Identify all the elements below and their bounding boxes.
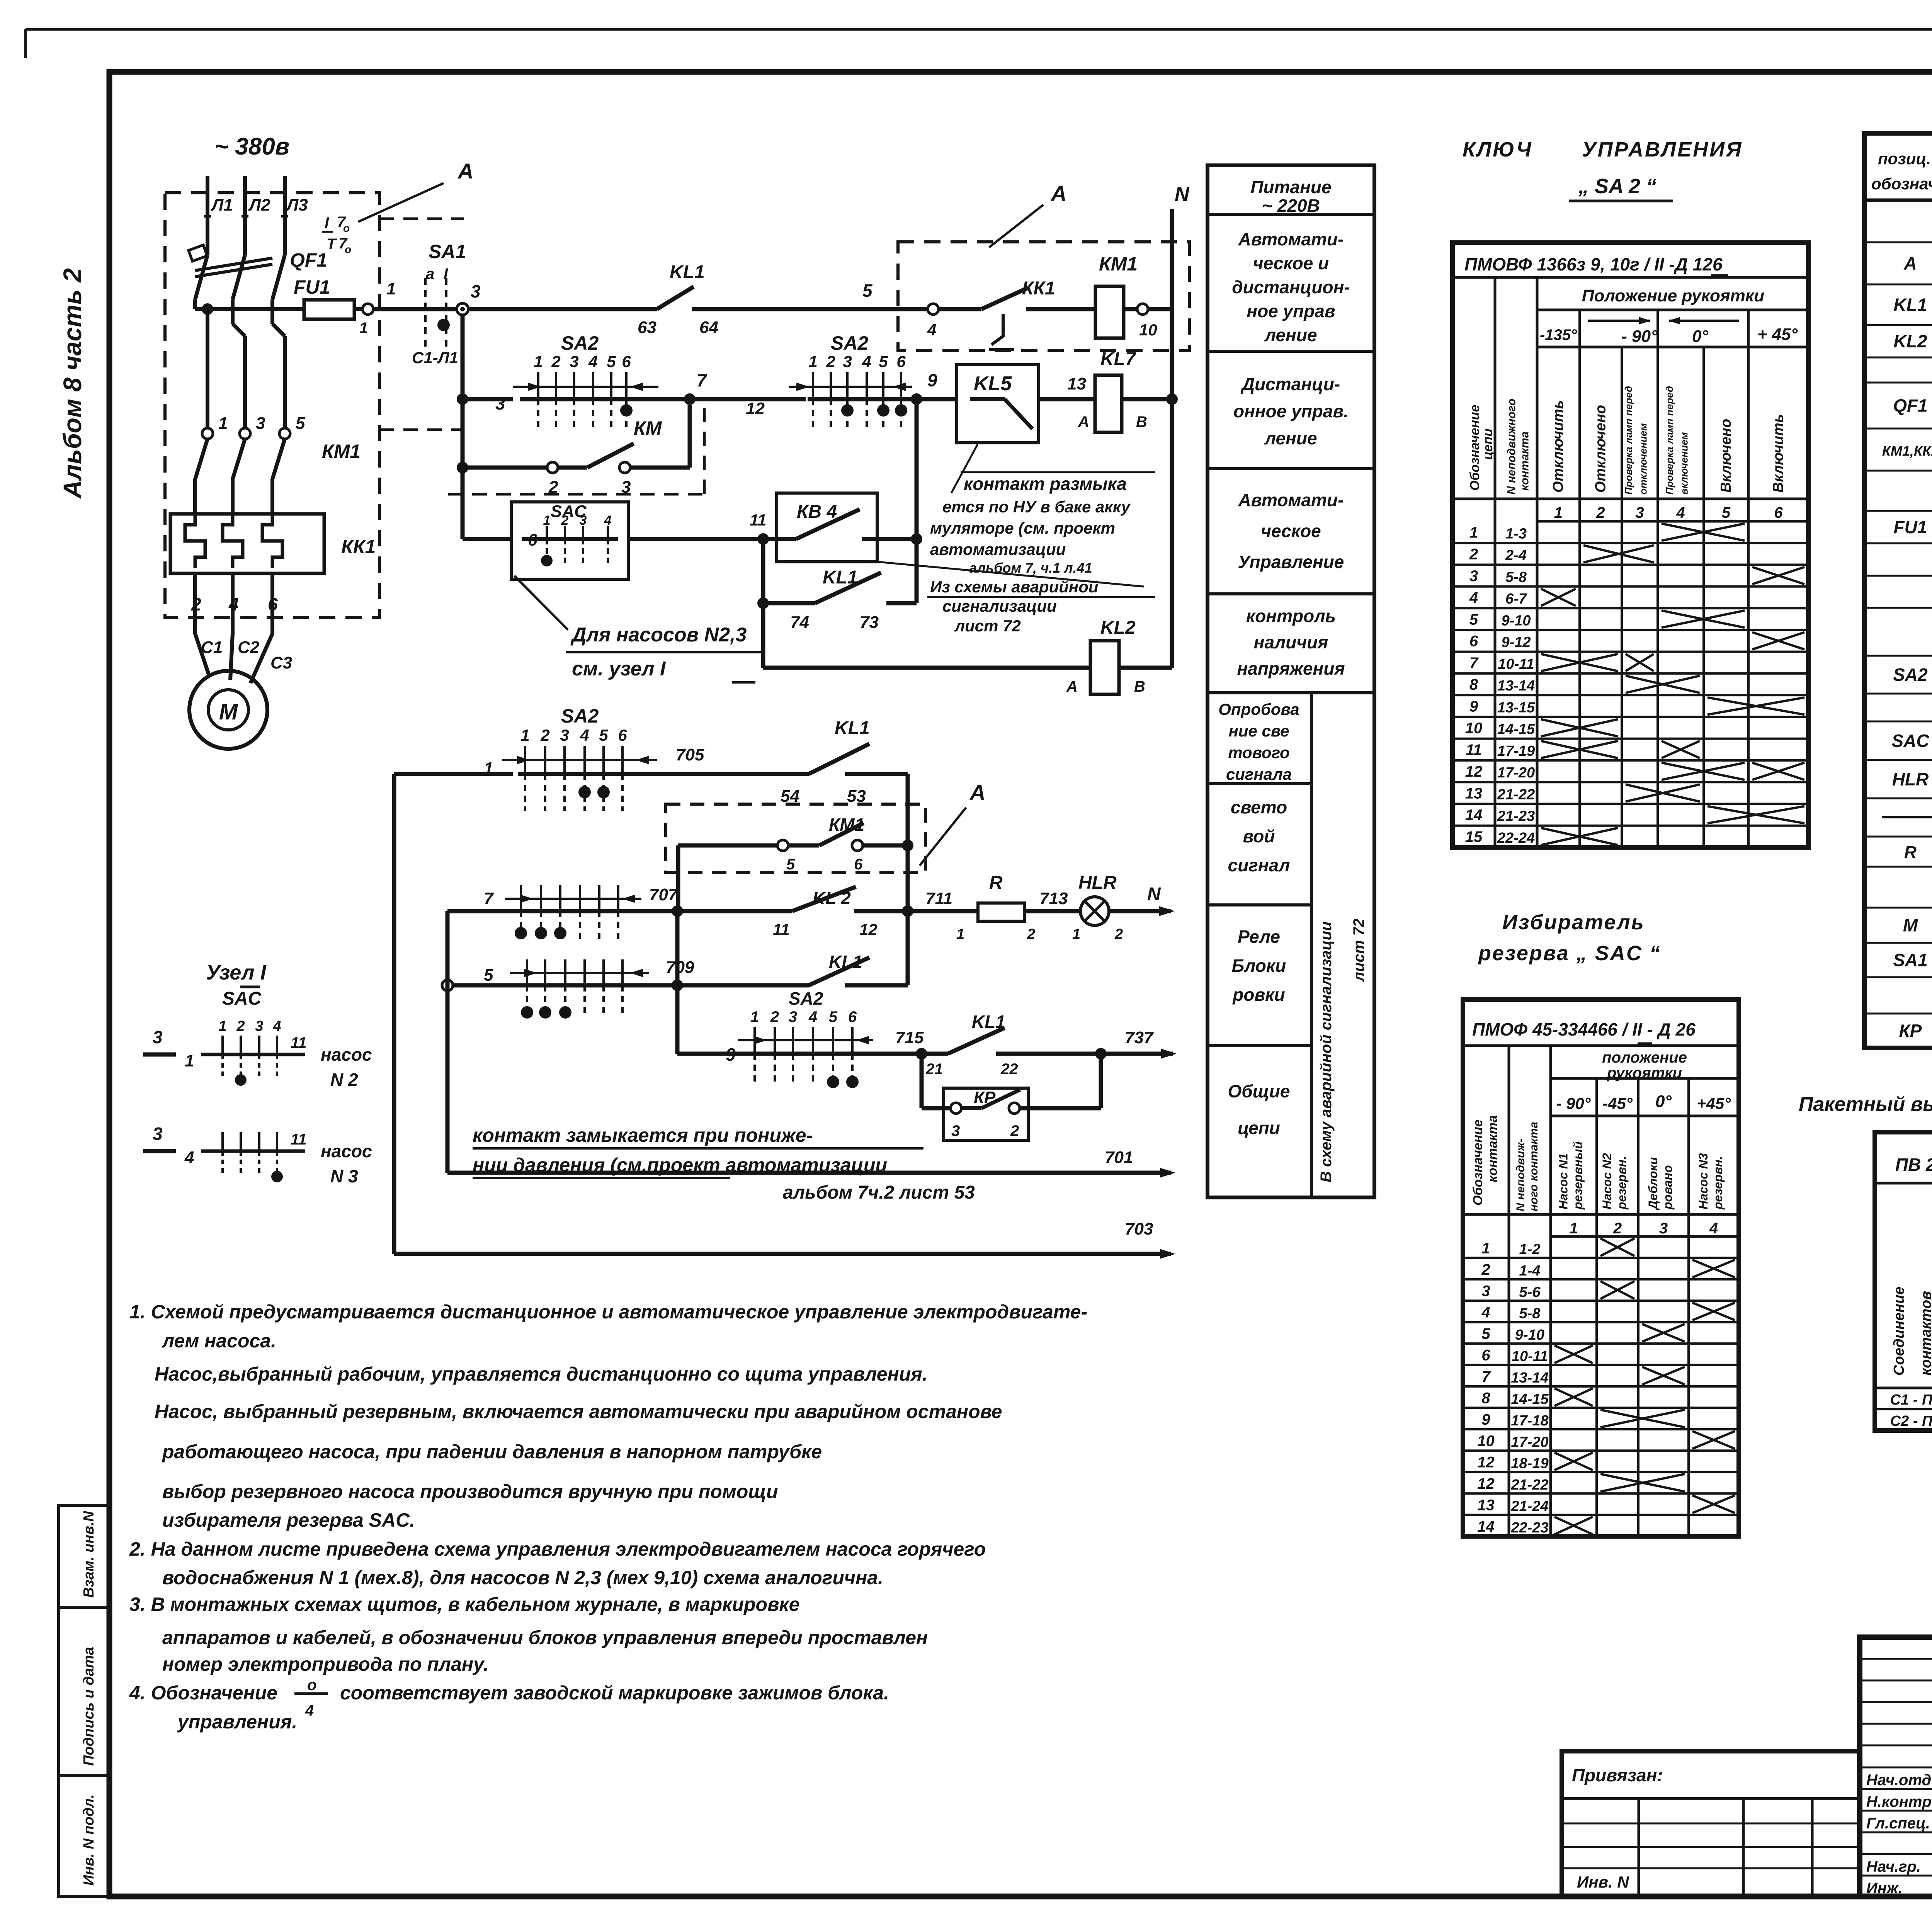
svg-text:9: 9 xyxy=(1481,1411,1490,1428)
node diagram насос N3 xyxy=(143,1149,176,1153)
svg-text:6: 6 xyxy=(854,856,863,873)
corner 705 to km1 aux xyxy=(906,774,910,985)
svg-text:Автомати-: Автомати- xyxy=(1238,490,1344,510)
svg-text:22-24: 22-24 xyxy=(1497,830,1535,846)
svg-text:3: 3 xyxy=(1635,504,1644,521)
svg-text:8: 8 xyxy=(1481,1389,1490,1406)
svg-text:N: N xyxy=(1147,884,1161,905)
svg-text:713: 713 xyxy=(1039,889,1068,908)
svg-text:КР: КР xyxy=(1899,1021,1922,1041)
svg-text:Пакетный выключатель: Пакетный выключатель xyxy=(1799,1093,1932,1116)
svg-text:4: 4 xyxy=(1481,1304,1490,1321)
svg-text:3: 3 xyxy=(580,513,587,528)
svg-text:см. узел I: см. узел I xyxy=(572,658,666,680)
svg-text:онное управ.: онное управ. xyxy=(1233,401,1349,421)
svg-text:12: 12 xyxy=(859,920,878,939)
dashed block boundary around SA1 xyxy=(379,218,464,220)
svg-text:Привязан:: Привязан: xyxy=(1572,1765,1663,1785)
svg-text:- 90°: - 90° xyxy=(1621,327,1658,346)
svg-text:1-4: 1-4 xyxy=(1519,1263,1541,1279)
svg-text:T: T xyxy=(327,236,337,253)
svg-text:1: 1 xyxy=(1469,524,1478,541)
svg-text:Обозначение: Обозначение xyxy=(1468,405,1482,491)
pressure relay KP branch xyxy=(920,1054,924,1108)
table SA1 frame xyxy=(1875,1132,1932,1430)
relay coil KL7 xyxy=(1095,375,1122,432)
svg-text:3: 3 xyxy=(843,352,852,371)
svg-text:ПМОФ 45-334466 / II - Д 26: ПМОФ 45-334466 / II - Д 26 xyxy=(1472,1019,1696,1039)
svg-text:управления.: управления. xyxy=(177,1711,297,1733)
svg-text:насос: насос xyxy=(321,1141,372,1161)
switch SA1 position marks xyxy=(424,278,427,348)
svg-text:контакт размыка: контакт размыка xyxy=(964,474,1127,494)
svg-text:ние све: ние све xyxy=(1228,722,1289,740)
svg-text:А: А xyxy=(1066,678,1078,695)
svg-text:9: 9 xyxy=(927,370,937,390)
contactor coil KM1 xyxy=(1095,286,1124,338)
signal lamp HLR xyxy=(1080,897,1109,925)
table SAC angles row xyxy=(1551,1115,1739,1117)
wire KL7 to N xyxy=(1122,397,1172,401)
svg-text:715: 715 xyxy=(895,1028,924,1047)
svg-text:1: 1 xyxy=(1481,1240,1490,1257)
svg-text:1: 1 xyxy=(1072,926,1080,942)
rung 701 wire xyxy=(446,911,450,1173)
svg-text:SA1: SA1 xyxy=(429,241,466,262)
svg-text:10: 10 xyxy=(1465,720,1483,737)
svg-text:4: 4 xyxy=(1709,1220,1718,1237)
table SAC data rows xyxy=(1463,1257,1739,1259)
svg-text:муляторе (см. проект: муляторе (см. проект xyxy=(930,519,1115,537)
svg-text:ПМОВФ 1366з 9, 10г / II -Д 126: ПМОВФ 1366з 9, 10г / II -Д 126 xyxy=(1464,254,1723,274)
svg-text:5: 5 xyxy=(599,726,608,744)
svg-text:SAC: SAC xyxy=(222,988,262,1009)
svg-text:-45°: -45° xyxy=(1602,1094,1633,1112)
svg-text:6: 6 xyxy=(1481,1347,1490,1364)
svg-text:13: 13 xyxy=(1465,785,1483,802)
svg-text:~ 380в: ~ 380в xyxy=(214,133,289,160)
svg-text:6: 6 xyxy=(622,352,631,371)
svg-text:КМ1: КМ1 xyxy=(1099,253,1138,275)
wires to motor xyxy=(193,573,197,634)
svg-text:лист 72: лист 72 xyxy=(954,617,1021,635)
svg-text:74: 74 xyxy=(790,613,809,632)
svg-text:R: R xyxy=(1904,843,1917,862)
svg-text:1: 1 xyxy=(750,1009,759,1026)
svg-text:Управление: Управление xyxy=(1238,552,1344,572)
svg-text:Проверка ламп перед: Проверка ламп перед xyxy=(1664,386,1675,495)
svg-text:Общие: Общие xyxy=(1228,1081,1290,1101)
svg-text:4: 4 xyxy=(862,352,871,371)
svg-text:Дистанци-: Дистанци- xyxy=(1240,374,1340,394)
svg-text:Включено: Включено xyxy=(1718,419,1734,493)
svg-text:1: 1 xyxy=(520,726,529,744)
svg-text:12: 12 xyxy=(1477,1475,1495,1492)
svg-text:KL7: KL7 xyxy=(1100,349,1136,369)
svg-text:N неподвиж-: N неподвиж- xyxy=(1514,1138,1527,1211)
junction KB4 right xyxy=(911,533,922,545)
svg-text:Положение рукоятки: Положение рукоятки xyxy=(1582,286,1764,305)
svg-text:сигнал: сигнал xyxy=(1228,855,1290,875)
junction node 11 xyxy=(757,533,769,545)
thermal contact KK1 on rung 1 xyxy=(928,304,939,315)
junction node 9 xyxy=(911,393,922,405)
title block left grid xyxy=(1860,1658,1932,1660)
svg-text:Блоки: Блоки xyxy=(1232,956,1286,976)
relay contact KL1 on rung 1 xyxy=(657,287,694,309)
svg-text:Взам. инв.N: Взам. инв.N xyxy=(81,1510,97,1598)
svg-text:Инж.: Инж. xyxy=(1866,1880,1903,1897)
svg-text:А: А xyxy=(457,159,473,183)
svg-text:контроль: контроль xyxy=(1246,606,1336,626)
attachment block Привязан xyxy=(1562,1751,1860,1896)
svg-text:64: 64 xyxy=(699,318,718,337)
svg-text:3: 3 xyxy=(495,393,505,413)
svg-text:наличия: наличия xyxy=(1254,632,1328,652)
svg-text:Опробова: Опробова xyxy=(1218,700,1299,718)
wire phase B down xyxy=(231,311,235,324)
relay contact KL2 on rung 707 xyxy=(792,887,856,911)
svg-text:резерва „ SAC “: резерва „ SAC “ xyxy=(1478,942,1661,965)
svg-text:6: 6 xyxy=(896,352,906,371)
wire 711 to resistor xyxy=(908,909,978,913)
svg-text:Насос N3: Насос N3 xyxy=(1696,1153,1710,1209)
switch SA2 group 5 xyxy=(510,972,649,974)
table SA1 header xyxy=(1875,1182,1932,1185)
rung KL2 - voltage monitor xyxy=(763,666,1090,670)
note leader для насосов xyxy=(514,576,568,630)
svg-text:2: 2 xyxy=(770,1009,779,1026)
svg-text:2: 2 xyxy=(1010,1122,1019,1139)
svg-text:Инв. N подл.: Инв. N подл. xyxy=(81,1794,97,1886)
svg-text:13: 13 xyxy=(1477,1497,1495,1514)
svg-text:4: 4 xyxy=(305,1702,314,1719)
svg-text:лем насоса.: лем насоса. xyxy=(162,1330,276,1352)
svg-text:4: 4 xyxy=(184,1148,194,1167)
svg-text:8: 8 xyxy=(1469,676,1478,693)
svg-text:2: 2 xyxy=(826,352,835,371)
svg-text:контактов: контактов xyxy=(1918,1291,1932,1376)
table SA1 data rows xyxy=(1875,1408,1932,1410)
svg-text:707: 707 xyxy=(649,885,679,904)
vertical tie aux contact left xyxy=(676,845,680,911)
svg-text:Отключить: Отключить xyxy=(1550,400,1566,493)
svg-text:М: М xyxy=(1903,915,1918,935)
rung 703 wire xyxy=(394,1252,1171,1256)
pressure switch contact KB4 in box xyxy=(777,493,877,562)
vertical tie 1753 down xyxy=(675,911,680,1054)
svg-text:С3: С3 xyxy=(270,653,292,672)
svg-text:2: 2 xyxy=(1613,1220,1622,1237)
svg-text:I: I xyxy=(325,214,329,231)
svg-text:5: 5 xyxy=(484,966,493,985)
svg-text:KL1: KL1 xyxy=(1894,295,1927,315)
svg-text:11: 11 xyxy=(291,1131,307,1148)
svg-text:SA2: SA2 xyxy=(789,988,823,1009)
svg-text:А: А xyxy=(1078,413,1089,430)
svg-text:21-24: 21-24 xyxy=(1510,1498,1548,1515)
svg-text:С1: С1 xyxy=(201,638,223,657)
svg-text:703: 703 xyxy=(1125,1219,1153,1238)
svg-text:4: 4 xyxy=(588,352,597,371)
svg-text:0°: 0° xyxy=(1692,327,1708,346)
svg-text:КМ1: КМ1 xyxy=(829,815,864,835)
svg-text:напряжения: напряжения xyxy=(1237,658,1345,679)
svg-text:3: 3 xyxy=(153,1124,163,1144)
svg-text:737: 737 xyxy=(1125,1028,1154,1047)
svg-text:1-3: 1-3 xyxy=(1505,526,1527,542)
svg-text:1: 1 xyxy=(543,513,551,528)
svg-text:включением: включением xyxy=(1679,432,1690,495)
rung 1 wire to KL1 contact xyxy=(468,307,657,311)
svg-text:„ SA 2 “: „ SA 2 “ xyxy=(1578,175,1656,198)
svg-text:Насос,выбранный рабочим, упра: Насос,выбранный рабочим, управляется дис… xyxy=(155,1363,928,1385)
svg-text:4: 4 xyxy=(604,513,612,528)
svg-text:ного контакта: ного контакта xyxy=(1527,1122,1540,1211)
svg-text:4: 4 xyxy=(580,726,589,744)
phase line Л2 xyxy=(243,176,247,255)
svg-text:положение: положение xyxy=(1602,1049,1687,1066)
svg-text:ровки: ровки xyxy=(1232,985,1285,1005)
svg-text:Питание: Питание xyxy=(1250,177,1331,197)
svg-text:KL1: KL1 xyxy=(823,567,858,588)
svg-text:5-8: 5-8 xyxy=(1519,1306,1541,1322)
svg-text:6: 6 xyxy=(618,726,627,744)
relay coil KL2 xyxy=(1090,641,1119,694)
svg-text:аппаратов и кабелей, в об: аппаратов и кабелей, в обозначении блоко… xyxy=(162,1627,928,1648)
svg-text:+45°: +45° xyxy=(1697,1094,1731,1112)
svg-text:2: 2 xyxy=(1114,926,1123,942)
contactor KM1 main contacts xyxy=(202,428,213,439)
svg-text:альбом 7, ч.1 л.41: альбом 7, ч.1 л.41 xyxy=(969,560,1092,576)
svg-text:Насос N2: Насос N2 xyxy=(1600,1153,1614,1209)
svg-text:тового: тового xyxy=(1228,743,1289,762)
svg-text:1: 1 xyxy=(218,414,228,433)
svg-text:ческое: ческое xyxy=(1261,521,1321,541)
rung SAC - selector xyxy=(463,537,511,541)
dashed boundary below KM rung xyxy=(448,493,704,496)
rung KM - auto control aux contact xyxy=(457,462,468,473)
wire resistor to lamp xyxy=(1024,909,1081,913)
svg-text:цепи: цепи xyxy=(1238,1118,1280,1138)
svg-text:15: 15 xyxy=(1465,828,1483,845)
svg-text:рукоятки: рукоятки xyxy=(1607,1065,1682,1082)
svg-text:10: 10 xyxy=(1139,321,1157,339)
svg-text:o: o xyxy=(343,222,350,234)
svg-text:3: 3 xyxy=(570,352,578,371)
svg-text:автоматизации: автоматизации xyxy=(930,540,1066,558)
switch SA2 group 3 xyxy=(502,759,657,761)
svg-text:ление: ление xyxy=(1264,325,1317,345)
svg-text:KL1: KL1 xyxy=(829,952,862,972)
relay contact KL1 on rung 705 xyxy=(809,744,869,774)
svg-text:Л2: Л2 xyxy=(248,196,270,214)
svg-text:5: 5 xyxy=(296,414,305,433)
svg-text:5-6: 5-6 xyxy=(1519,1284,1541,1300)
svg-text:17-20: 17-20 xyxy=(1511,1434,1548,1450)
table key SA2 frame xyxy=(1452,243,1808,847)
svg-text:17-19: 17-19 xyxy=(1497,743,1535,759)
svg-text:5: 5 xyxy=(786,856,795,873)
svg-text:21-22: 21-22 xyxy=(1510,1477,1548,1493)
svg-text:22-23: 22-23 xyxy=(1510,1520,1548,1536)
svg-text:KL1: KL1 xyxy=(670,262,705,282)
svg-text:М: М xyxy=(219,699,238,724)
relay contact KL1 on rung 709 xyxy=(809,957,869,985)
svg-text:21-22: 21-22 xyxy=(1497,786,1535,803)
svg-text:13-14: 13-14 xyxy=(1497,678,1535,694)
left margin stamp boxes xyxy=(59,1505,109,1607)
svg-text:9-10: 9-10 xyxy=(1515,1327,1544,1343)
svg-text:12: 12 xyxy=(1465,763,1483,780)
aux contact KM1 (53-54) xyxy=(678,844,777,848)
svg-text:1. Схемой предусматривается: 1. Схемой предусматривается дистанционно… xyxy=(129,1301,1087,1323)
svg-text:КЛЮЧ: КЛЮЧ xyxy=(1463,138,1532,161)
svg-text:Деблоки: Деблоки xyxy=(1646,1157,1660,1211)
left control bus vertical xyxy=(461,315,465,539)
svg-text:3: 3 xyxy=(256,414,265,433)
svg-text:11: 11 xyxy=(291,1034,307,1051)
breaker QF1 xyxy=(195,255,207,299)
svg-text:14-15: 14-15 xyxy=(1497,721,1535,738)
thermal relay KK1 heaters xyxy=(170,514,324,573)
svg-text:работающего насоса, при па: работающего насоса, при падении давления… xyxy=(162,1441,822,1463)
dashed box around KM1 aux contact xyxy=(666,804,925,872)
svg-text:1: 1 xyxy=(386,279,396,298)
svg-text:1: 1 xyxy=(185,1051,194,1070)
function boxes column xyxy=(1207,165,1374,1197)
svg-text:В схему аварийной сигнализации: В схему аварийной сигнализации xyxy=(1318,922,1335,1182)
svg-text:альбом 7ч.2 лист 53: альбом 7ч.2 лист 53 xyxy=(783,1182,975,1203)
svg-text:3. В монтажных схемах щи: 3. В монтажных схемах щитов, в кабельном… xyxy=(129,1594,799,1615)
switch SA2 group 2 xyxy=(789,386,912,388)
svg-text:5: 5 xyxy=(607,352,616,371)
rung 2 wire to SA2 group 2 xyxy=(690,397,806,401)
svg-text:4: 4 xyxy=(1676,504,1685,521)
svg-text:Отключено: Отключено xyxy=(1593,405,1609,493)
svg-text:5: 5 xyxy=(879,352,888,371)
svg-text:9-10: 9-10 xyxy=(1501,612,1531,629)
svg-text:13-14: 13-14 xyxy=(1511,1370,1548,1386)
svg-text:3: 3 xyxy=(153,1027,163,1047)
table SAC frame xyxy=(1463,1000,1739,1536)
svg-text:6: 6 xyxy=(848,1009,857,1026)
svg-text:7: 7 xyxy=(1481,1368,1491,1385)
svg-text:Насос N1: Насос N1 xyxy=(1556,1153,1570,1209)
resistor R xyxy=(978,903,1024,921)
node diagram насос N2 xyxy=(143,1053,176,1057)
svg-text:Нач.гр.: Нач.гр. xyxy=(1866,1858,1921,1875)
table SAC header положение рукоятки xyxy=(1551,1077,1739,1080)
table key SA2 header положение рукоятки xyxy=(1537,309,1808,311)
svg-text:КК1: КК1 xyxy=(341,536,376,558)
phase line Л3 xyxy=(283,176,287,255)
svg-text:выбор резервного насоса пр: выбор резервного насоса производится вру… xyxy=(162,1481,778,1502)
svg-text:Л1: Л1 xyxy=(211,196,233,214)
svg-text:2: 2 xyxy=(1469,546,1478,563)
svg-text:-135°: -135° xyxy=(1540,327,1577,344)
svg-text:I: I xyxy=(444,265,448,282)
wire SAC to KB4 xyxy=(628,537,758,541)
components table grid xyxy=(1864,241,1932,243)
svg-text:2: 2 xyxy=(551,352,560,371)
svg-text:3: 3 xyxy=(471,281,481,301)
relay contact KL1 (self-hold 74-73) xyxy=(757,597,769,609)
rung 1 wire - power to KM1 coil xyxy=(373,307,457,311)
dashed box around KK1 contact and KM1 coil xyxy=(898,242,1189,350)
svg-text:2-4: 2-4 xyxy=(1505,548,1527,564)
wire 737 arrow xyxy=(1101,1052,1173,1056)
svg-text:КК1: КК1 xyxy=(1022,278,1055,299)
svg-text:А: А xyxy=(1050,181,1066,206)
svg-text:5: 5 xyxy=(1722,504,1731,521)
svg-text:18-19: 18-19 xyxy=(1511,1456,1548,1472)
svg-text:резервн.: резервн. xyxy=(1615,1156,1629,1210)
rung 9 wire xyxy=(677,1052,755,1056)
components table frame xyxy=(1864,133,1932,1048)
svg-text:709: 709 xyxy=(666,958,694,977)
neutral bus N vertical xyxy=(1170,209,1174,668)
svg-text:Соединение: Соединение xyxy=(1891,1287,1907,1376)
svg-text:3: 3 xyxy=(1481,1282,1490,1299)
wire lamp to N arrow xyxy=(1109,909,1171,913)
svg-text:14: 14 xyxy=(1477,1518,1495,1535)
svg-text:FU1: FU1 xyxy=(1894,517,1927,537)
svg-text:21-23: 21-23 xyxy=(1497,808,1535,825)
svg-text:Включить: Включить xyxy=(1770,414,1787,493)
svg-text:701: 701 xyxy=(1105,1148,1133,1167)
svg-text:FU1: FU1 xyxy=(294,276,330,298)
svg-text:QF1: QF1 xyxy=(290,249,327,271)
svg-text:4: 4 xyxy=(927,321,936,339)
svg-text:вой: вой xyxy=(1243,826,1275,846)
wire phase C down xyxy=(270,311,274,324)
svg-text:7: 7 xyxy=(697,370,707,390)
svg-text:С1-Л1: С1-Л1 xyxy=(412,349,458,367)
svg-text:2: 2 xyxy=(236,1018,245,1034)
svg-text:KL1: KL1 xyxy=(972,1012,1005,1032)
svg-text:9: 9 xyxy=(1469,698,1478,715)
svg-text:ПВ 2 - 16 / У256Б: ПВ 2 - 16 / У256Б xyxy=(1895,1155,1932,1175)
svg-text:5: 5 xyxy=(862,281,873,301)
svg-text:номер электропривода по пл: номер электропривода по плану. xyxy=(162,1653,489,1675)
svg-text:Для насосов N2,3: Для насосов N2,3 xyxy=(570,624,747,646)
svg-text:насос: насос xyxy=(321,1044,372,1065)
svg-text:Инв. N: Инв. N xyxy=(1577,1873,1629,1891)
svg-text:2. На данном листе привед: 2. На данном листе приведена схема управ… xyxy=(129,1538,986,1560)
svg-text:9-12: 9-12 xyxy=(1501,634,1531,651)
svg-text:SA1: SA1 xyxy=(1893,950,1927,970)
svg-text:4: 4 xyxy=(1469,589,1478,606)
svg-text:Н.контр.: Н.контр. xyxy=(1866,1793,1932,1810)
svg-text:17-20: 17-20 xyxy=(1497,765,1535,781)
svg-text:3: 3 xyxy=(1659,1220,1668,1237)
left bus of signal circuits xyxy=(392,774,396,1254)
svg-text:В: В xyxy=(1136,413,1147,430)
svg-text:- 90°: - 90° xyxy=(1556,1094,1591,1112)
svg-text:Избиратель: Избиратель xyxy=(1502,911,1645,934)
selector switch SAC in box xyxy=(511,502,628,579)
motor M xyxy=(189,671,267,749)
svg-text:QF1: QF1 xyxy=(1893,396,1927,416)
svg-text:контакта: контакта xyxy=(1485,1115,1500,1182)
svg-text:13: 13 xyxy=(1067,374,1086,393)
svg-text:1: 1 xyxy=(534,352,543,371)
rung 707 wire xyxy=(447,909,521,913)
svg-text:лист 72: лист 72 xyxy=(1350,918,1367,982)
svg-text:резервн.: резервн. xyxy=(1711,1156,1725,1210)
svg-text:1: 1 xyxy=(1554,504,1563,521)
